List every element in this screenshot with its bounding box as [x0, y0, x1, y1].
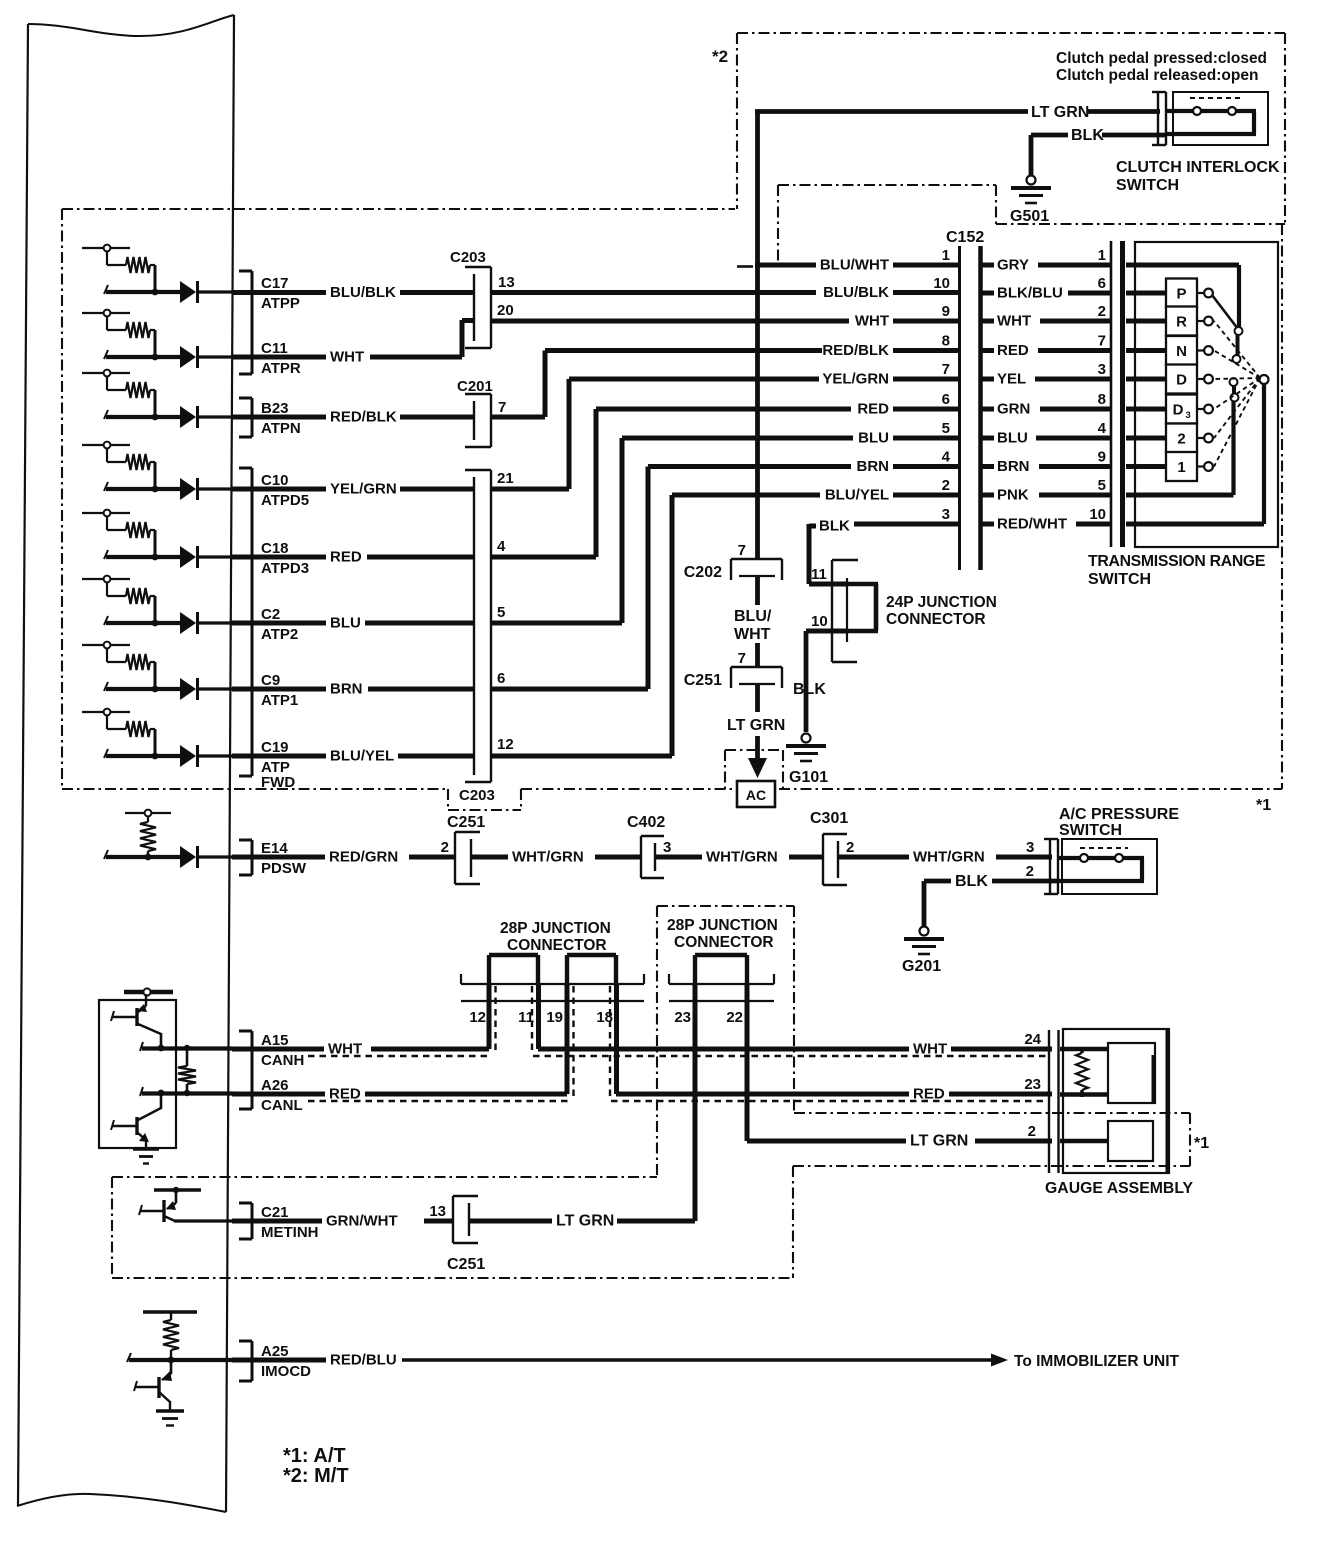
- label G101: [789, 769, 828, 786]
- dashed selector line to 2: [1214, 378, 1260, 438]
- contact D3: [1197, 405, 1213, 414]
- IMOCD supply rail: [143, 1310, 197, 1313]
- wire WHT/GRN 3: [838, 855, 909, 860]
- pin label C2/ATP2: [261, 606, 298, 643]
- PCM strip top torn edge: [28, 15, 234, 36]
- svg-text:10: 10: [1089, 506, 1106, 523]
- svg-text:D: D: [1176, 372, 1187, 389]
- contact R: [1197, 317, 1213, 326]
- svg-text:FWD: FWD: [261, 774, 295, 791]
- connector C251 (mid): [731, 667, 782, 688]
- label LT GRN (METINH): [556, 1213, 614, 1230]
- svg-text:5: 5: [497, 604, 505, 621]
- pin label C21/METINH: [261, 1204, 319, 1241]
- wire LT GRN (METINH) a: [469, 1219, 552, 1224]
- svg-text:20: 20: [497, 302, 514, 319]
- svg-text:8: 8: [1098, 391, 1106, 408]
- main A/T dash-dot box top edge: [62, 208, 735, 210]
- svg-text:C201: C201: [457, 378, 493, 395]
- twisted pair dash RED b: [611, 1100, 1048, 1102]
- C152 left pin 10 label: [933, 275, 950, 292]
- wire range switch row D3: [1126, 407, 1166, 412]
- svg-text:BRN: BRN: [857, 458, 890, 475]
- svg-text:GAUGE ASSEMBLY: GAUGE ASSEMBLY: [1045, 1180, 1194, 1197]
- svg-text:13: 13: [498, 274, 515, 291]
- diode D7: [180, 678, 198, 700]
- range switch position box D: [1166, 365, 1197, 394]
- svg-text:G501: G501: [1010, 208, 1049, 225]
- AC box: [737, 781, 775, 807]
- svg-text:13: 13: [429, 1203, 446, 1220]
- gauge box right edge thick: [1166, 1029, 1170, 1173]
- wire RED/GRN to C251: [409, 855, 455, 860]
- label BLK (to ground): [793, 681, 826, 698]
- wire diode to PCM edge row 3: [198, 415, 233, 418]
- range switch body box: [1135, 242, 1278, 547]
- wire BLU/WHT (C202 to C251): [755, 577, 760, 667]
- svg-text:GRN/WHT: GRN/WHT: [326, 1213, 398, 1230]
- label RED (gauge): [913, 1086, 945, 1103]
- svg-text:C402: C402: [627, 814, 665, 831]
- svg-text:RED/BLK: RED/BLK: [822, 342, 889, 359]
- 28P junction connector 1 staple A: [489, 955, 538, 984]
- twisted pair dash WHT a: [308, 1055, 490, 1057]
- wire ATPN RED/BLK (PCM): [232, 415, 326, 420]
- svg-text:Clutch pedal released:open: Clutch pedal released:open: [1056, 67, 1258, 84]
- wire GRN/WHT to C251: [424, 1219, 453, 1224]
- svg-text:A26: A26: [261, 1077, 289, 1094]
- svg-text:*1: A/T: *1: A/T: [283, 1445, 346, 1467]
- C152 right stub row RED/WHT: [982, 522, 994, 527]
- pull-up rail and resistor R2: [82, 310, 155, 357]
- wire diode to PCM edge row 1: [198, 290, 233, 293]
- wire RED into C152: [893, 407, 959, 412]
- ground (CAN driver): [133, 1149, 159, 1164]
- ground (IMOCD): [156, 1411, 184, 1426]
- second 28P junction dash-dot box: [657, 906, 794, 1177]
- svg-text:C17: C17: [261, 275, 289, 292]
- svg-text:5: 5: [942, 420, 950, 437]
- C152 right stub row RED: [982, 348, 994, 353]
- svg-text:4: 4: [497, 538, 506, 555]
- 28P junction connector 1 staple B: [567, 955, 616, 984]
- svg-text:SWITCH: SWITCH: [1059, 822, 1122, 839]
- label BLU/YEL (C152 left): [825, 487, 889, 504]
- wire RED (PCM): [232, 555, 326, 560]
- wire METINH to PCM edge: [174, 1219, 233, 1222]
- pin label C10/ATPD5: [261, 472, 309, 509]
- wire LT GRN label to switch: [1088, 109, 1160, 114]
- wire WHT to range switch: [1040, 319, 1110, 324]
- svg-text:3: 3: [1098, 361, 1106, 378]
- wire BRN into C152: [893, 464, 959, 469]
- svg-text:WHT: WHT: [330, 349, 364, 366]
- ground G501: [1011, 176, 1051, 204]
- svg-text:9: 9: [1098, 449, 1106, 466]
- pin label C18/ATPD3: [261, 540, 309, 577]
- C152 left pin 4 label: [942, 449, 951, 466]
- wire 28P pin 11: [536, 984, 541, 1049]
- label RED (C152 left): [857, 401, 889, 418]
- svg-text:3: 3: [942, 506, 950, 523]
- pin label A15/CANH: [261, 1032, 304, 1069]
- wire LT GRN from pin22: [747, 1139, 906, 1144]
- svg-text:BLU: BLU: [330, 615, 361, 632]
- wire CANL inside PCM: [140, 1087, 233, 1096]
- label *2 (M/T note): [712, 47, 728, 66]
- range switch position box P: [1166, 279, 1197, 308]
- svg-text:P: P: [1176, 286, 1186, 303]
- svg-text:ATPN: ATPN: [261, 420, 301, 437]
- pin 12 label (tall C203): [497, 736, 514, 753]
- junction node PDSW: [145, 854, 152, 861]
- label C251 (mid): [684, 672, 722, 689]
- svg-text:8: 8: [942, 333, 950, 350]
- svg-text:Clutch pedal pressed:closed: Clutch pedal pressed:closed: [1056, 50, 1267, 67]
- svg-text:YEL/GRN: YEL/GRN: [330, 481, 397, 498]
- junction node row 3: [152, 414, 159, 421]
- svg-text:2: 2: [1098, 303, 1106, 320]
- wire GRN to range switch: [1040, 407, 1110, 412]
- pin label E14/PDSW: [261, 840, 307, 877]
- connector bracket A25: [239, 1341, 252, 1381]
- C152 left pin 7 label: [942, 361, 950, 378]
- wire BLU from connector to riser: [491, 621, 622, 626]
- range switch position box N: [1166, 336, 1197, 365]
- twisted pair dash pin12: [494, 986, 496, 1054]
- svg-text:RED/GRN: RED/GRN: [329, 849, 398, 866]
- svg-text:21: 21: [497, 470, 514, 487]
- svg-text:24: 24: [1024, 1031, 1041, 1048]
- junction node CANL: [158, 1090, 165, 1097]
- svg-text:1: 1: [1177, 459, 1185, 476]
- svg-text:C203: C203: [459, 787, 495, 804]
- label GRN (C152 right): [997, 401, 1030, 418]
- label WHT (gauge): [913, 1041, 947, 1058]
- label LT GRN (gauge): [910, 1133, 968, 1150]
- dashed selector line to N: [1214, 351, 1260, 379]
- range switch lower arm: [1230, 378, 1239, 402]
- wire diode to PCM edge PDSW: [198, 855, 233, 858]
- wire RED to C152: [596, 407, 851, 412]
- svg-text:2: 2: [942, 477, 950, 494]
- label PNK (C152 right): [997, 487, 1029, 504]
- C152 region dash-dot right jog: [995, 185, 997, 224]
- label GAUGE ASSEMBLY: [1045, 1180, 1194, 1197]
- wire gauge pin23 internal: [1060, 1092, 1108, 1097]
- wire diode to PCM edge row 5: [198, 555, 233, 558]
- svg-text:6: 6: [497, 670, 505, 687]
- 24P junction connector link staple: [847, 584, 878, 631]
- C152 right stub row PNK: [982, 493, 994, 498]
- svg-text:28P JUNCTION: 28P JUNCTION: [500, 920, 611, 937]
- wire CANL RED (PCM): [232, 1092, 325, 1097]
- input wire row 4: [104, 482, 180, 491]
- C152 left pin 9 label: [942, 303, 950, 320]
- main A/T dash-dot box bottom edge (right part): [521, 788, 1282, 790]
- pull-up rail and resistor R6: [82, 576, 155, 623]
- svg-text:3: 3: [1186, 410, 1191, 421]
- wire RED riser: [594, 409, 599, 557]
- junction node row 6: [152, 620, 159, 627]
- 28P junction connector 1 tray: [461, 974, 644, 1001]
- range switch pin 4 label: [1098, 420, 1107, 437]
- svg-text:C152: C152: [946, 229, 984, 246]
- svg-text:RED/WHT: RED/WHT: [997, 516, 1067, 533]
- wire GRY to range switch: [1038, 263, 1110, 268]
- gauge meter element 1: [1108, 1043, 1155, 1103]
- svg-text:12: 12: [469, 1009, 486, 1026]
- 28P junction connector 2 staple: [695, 955, 747, 984]
- wire YEL/GRN (PCM): [232, 487, 326, 492]
- pin label C19/ATP FWD: [261, 739, 295, 791]
- C152 right stub row GRY: [982, 263, 994, 268]
- wire BLU/WHT from trunk: [755, 263, 816, 268]
- label BLK (clutch): [1071, 127, 1104, 144]
- wire RED/BLK to C152: [545, 348, 822, 353]
- label YEL/GRN: [330, 481, 397, 498]
- range switch pin 9 label: [1098, 449, 1106, 466]
- svg-text:G101: G101: [789, 769, 828, 786]
- wire RED/WHT to range switch: [1076, 522, 1110, 527]
- diode D1: [180, 281, 198, 303]
- svg-text:7: 7: [1098, 333, 1106, 350]
- wire WHT/GRN 1: [471, 855, 508, 860]
- C152 right stub row GRN: [982, 407, 994, 412]
- label WHT (C152 right): [997, 313, 1031, 330]
- pin label A26/CANL: [261, 1077, 303, 1114]
- range switch pin 10 label: [1089, 506, 1106, 523]
- svg-text:10: 10: [811, 613, 828, 630]
- range switch pivot contact: [1260, 375, 1269, 384]
- connector C202: [731, 559, 782, 580]
- label G201: [902, 958, 941, 975]
- range switch pin 5 label: [1098, 477, 1106, 494]
- pin 2 label (gauge): [1028, 1123, 1036, 1140]
- range switch pin 6 label: [1098, 275, 1106, 292]
- range switch connector bars: [1111, 241, 1123, 547]
- pin label B23/ATPN: [261, 400, 301, 437]
- wire PNK to range switch: [1039, 493, 1110, 498]
- svg-text:RED: RED: [913, 1086, 945, 1103]
- wire diode to PCM edge row 6: [198, 621, 233, 624]
- main A/T dash-dot box bottom edge (left of C203 notch): [62, 788, 448, 790]
- wire YEL to range switch: [1035, 377, 1110, 382]
- wire ATPP BLU/BLK (PCM to C203): [232, 290, 326, 295]
- wire 28P pin 12: [487, 984, 492, 1049]
- pin 4 label (tall C203): [497, 538, 506, 555]
- svg-text:BLU/YEL: BLU/YEL: [825, 487, 889, 504]
- pin 20 label: [497, 302, 514, 319]
- label BRN (C152 right): [997, 458, 1030, 475]
- pin 7 label (C251): [738, 650, 746, 667]
- svg-text:YEL: YEL: [997, 371, 1026, 388]
- svg-text:TRANSMISSION RANGE: TRANSMISSION RANGE: [1088, 553, 1265, 570]
- wire RED/BLU to immobilizer: [402, 1358, 993, 1361]
- pull-up rail and resistor R5: [82, 510, 155, 557]
- label BLU/BLK (C152): [823, 284, 889, 301]
- pull-up rail and resistor R9 (PDSW): [125, 810, 171, 857]
- wire diode to PCM edge row 8: [198, 754, 233, 757]
- svg-text:SWITCH: SWITCH: [1116, 177, 1179, 194]
- svg-text:CLUTCH INTERLOCK: CLUTCH INTERLOCK: [1116, 159, 1280, 176]
- svg-text:CANH: CANH: [261, 1052, 304, 1069]
- wire WHT into C152: [893, 319, 959, 324]
- wire WHT to C203 pin20: [462, 318, 473, 323]
- wire LT GRN to AC: [755, 684, 760, 760]
- label A/C PRESSURE: [1059, 806, 1179, 823]
- wire PDSW RED/GRN (PCM): [232, 855, 325, 860]
- wire BLK into C152: [854, 522, 959, 527]
- svg-text:BLU/BLK: BLU/BLK: [330, 284, 396, 301]
- connector C203 (top): [465, 267, 491, 348]
- gauge assembly box: [1063, 1029, 1169, 1173]
- svg-text:5: 5: [1098, 477, 1106, 494]
- C152 right stub row YEL: [982, 377, 994, 382]
- svg-text:CANL: CANL: [261, 1097, 303, 1114]
- pin 3 label (A/C switch): [1026, 839, 1034, 856]
- wire 24P pin10 to G101: [804, 631, 809, 732]
- wire BLU to tall C203: [365, 621, 473, 626]
- wire WHT from pin11 to gauge: [538, 1047, 909, 1052]
- svg-text:C251: C251: [447, 814, 485, 831]
- wire BLU/YEL into C152: [893, 493, 959, 498]
- svg-text:22: 22: [726, 1009, 743, 1026]
- wire IMOCD RED/BLU (PCM): [232, 1358, 326, 1363]
- transistor Q2 (CAN low side): [111, 1093, 161, 1149]
- svg-text:ATP2: ATP2: [261, 626, 298, 643]
- gauge *1 strip dash-dot top edge: [794, 1112, 1190, 1114]
- svg-text:6: 6: [942, 391, 950, 408]
- wire YEL/GRN from connector to riser: [491, 487, 569, 492]
- svg-text:ATPR: ATPR: [261, 360, 301, 377]
- pin label C11/ATPR: [261, 340, 301, 377]
- svg-text:23: 23: [674, 1009, 691, 1026]
- label RED/GRN: [329, 849, 398, 866]
- wire BRN to tall C203: [368, 687, 473, 692]
- connector bracket C10..C19: [239, 468, 252, 776]
- svg-text:WHT: WHT: [734, 626, 771, 643]
- wire range switch row 5 (PNK): [1126, 399, 1234, 495]
- pull-up rail and resistor R4: [82, 442, 155, 489]
- svg-text:A15: A15: [261, 1032, 289, 1049]
- M/T *2 dash-dot box left edge: [736, 33, 738, 209]
- label RED/WHT (C152 right): [997, 516, 1067, 533]
- wire BRN to C152: [648, 464, 851, 469]
- svg-text:4: 4: [942, 449, 951, 466]
- range switch position box R: [1166, 307, 1197, 336]
- range switch position box D3: [1166, 395, 1197, 424]
- pin 13 label (C251 met): [429, 1203, 446, 1220]
- input wire IMOCD: [127, 1353, 233, 1362]
- svg-text:G201: G201: [902, 958, 941, 975]
- svg-text:PDSW: PDSW: [261, 860, 307, 877]
- svg-text:BLU: BLU: [858, 430, 889, 447]
- label WHT (C152 left): [855, 313, 889, 330]
- 28P junction connector 2 tray: [669, 974, 774, 1001]
- junction node row 5: [152, 554, 159, 561]
- svg-text:WHT: WHT: [997, 313, 1031, 330]
- svg-text:CONNECTOR: CONNECTOR: [886, 611, 986, 628]
- clutch interlock switch body: [1173, 92, 1268, 145]
- svg-text:BRN: BRN: [997, 458, 1030, 475]
- pin 2 label (C301): [846, 839, 854, 856]
- wire gauge pin2 internal: [1060, 1139, 1108, 1144]
- arrow to immobilizer: [991, 1354, 1008, 1367]
- svg-text:*1: *1: [1194, 1135, 1209, 1152]
- twisted pair dash pin11: [531, 986, 533, 1054]
- transistor Q3 (METINH): [139, 1190, 176, 1222]
- wire WHT/GRN 2: [655, 855, 702, 860]
- wire BLU/YEL from connector to riser: [491, 754, 672, 759]
- label CONNECTOR (1): [507, 937, 607, 954]
- label CONNECTOR (24P): [886, 611, 986, 628]
- wire BLK (A/C): [924, 879, 951, 884]
- label *1 (gauge note): [1194, 1135, 1209, 1152]
- range switch position box 2: [1166, 424, 1197, 453]
- label C203 (top): [450, 249, 486, 266]
- pin label A25/IMOCD: [261, 1343, 311, 1380]
- wire CANH WHT (PCM): [232, 1047, 324, 1052]
- clutch interlock switch contacts: [1166, 98, 1256, 134]
- connector bracket A15/A26: [239, 1031, 252, 1109]
- label C152: [946, 229, 984, 246]
- svg-text:C202: C202: [684, 564, 722, 581]
- pull-up rail and resistor R1: [82, 245, 155, 292]
- label GRY (C152 right): [997, 257, 1029, 274]
- label RED: [330, 549, 362, 566]
- svg-text:CONNECTOR: CONNECTOR: [507, 937, 607, 954]
- wire C203 pin20 to C152: [491, 319, 849, 324]
- connector bracket B23: [239, 398, 252, 437]
- svg-text:To IMMOBILIZER UNIT: To IMMOBILIZER UNIT: [1014, 1353, 1180, 1370]
- label WHT (ATPR): [330, 349, 364, 366]
- C152 region dash-dot left jog: [777, 185, 779, 263]
- label C202: [684, 564, 722, 581]
- svg-text:*1: *1: [1256, 797, 1271, 814]
- label WHT (CANH): [328, 1041, 362, 1058]
- label G501: [1010, 208, 1049, 225]
- label BLU/YEL: [330, 748, 394, 765]
- C152 right stub row BLK/BLU: [982, 291, 994, 296]
- C152 left pin 6 label: [942, 391, 950, 408]
- connector C152 bars: [960, 246, 981, 570]
- svg-text:19: 19: [546, 1009, 563, 1026]
- C152 right stub row WHT: [982, 319, 994, 324]
- svg-text:RED/BLK: RED/BLK: [330, 409, 397, 426]
- C152 right stub row BRN: [982, 464, 994, 469]
- input wire row 5: [104, 550, 180, 559]
- gauge assembly connector bars: [1049, 1030, 1059, 1173]
- twisted pair dash pin18: [609, 986, 611, 1099]
- label RED/BLK: [330, 409, 397, 426]
- wire BLK elbow (C152 pin3): [809, 524, 816, 584]
- label WHT/GRN 3: [913, 849, 985, 866]
- label C251 (A/C row): [447, 814, 485, 831]
- wire range switch row R: [1126, 319, 1166, 324]
- label clutch pedal note line1: [1056, 50, 1267, 67]
- wire BLU/WHT into C152: [893, 263, 959, 268]
- range switch pin 1 label: [1098, 247, 1106, 264]
- wire RED/BLK riser: [543, 351, 548, 418]
- svg-text:WHT/GRN: WHT/GRN: [706, 849, 778, 866]
- wire YEL/GRN riser: [567, 379, 572, 489]
- svg-text:C21: C21: [261, 1204, 289, 1221]
- pin 23 label (28P): [674, 1009, 691, 1026]
- wire 28P pin 22: [745, 984, 750, 1141]
- svg-text:C11: C11: [261, 340, 288, 357]
- AC arrow dash-dot notch box: [725, 750, 783, 789]
